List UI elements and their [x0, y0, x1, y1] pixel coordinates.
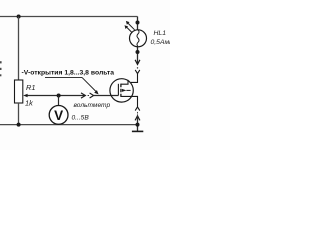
wire source lead — [121, 96, 138, 99]
wire gate run right segment — [94, 95, 119, 97]
svg-text:вольтметр: вольтметр — [74, 102, 111, 109]
transistor VT MOSFET circle — [110, 79, 133, 102]
connector X3 socket fork (opens down) — [135, 107, 140, 111]
node bottom-right junction — [136, 123, 140, 127]
svg-text:0...5В: 0...5В — [72, 115, 90, 122]
cropped text marks at left edge — [0, 61, 2, 63]
transistor gate bar — [117, 84, 119, 96]
connector X3 gap dots — [137, 112, 138, 113]
connector X2 gap dot — [137, 67, 138, 68]
wire source to bottom rail — [137, 116, 139, 131]
node lamp top terminal dot — [136, 21, 140, 25]
connector X2 socket fork (opens up) — [135, 70, 140, 74]
svg-text:1k: 1k — [25, 98, 33, 107]
wire drain lead inner — [121, 80, 128, 84]
svg-text:-V-открытия 1,8...3,8 вольта: -V-открытия 1,8...3,8 вольта — [22, 70, 115, 77]
lamp emission arrow 2 — [127, 27, 132, 32]
voltmeter circle — [49, 106, 68, 125]
wire gate run left segment — [27, 95, 85, 97]
node lamp bottom terminal dot — [136, 50, 140, 54]
connector X2 plug arrow (down) — [135, 60, 140, 65]
leader arrowhead — [94, 90, 98, 94]
lamp HL1 circle — [130, 30, 147, 47]
svg-text:0,5Амп: 0,5Амп — [151, 39, 171, 46]
connector X3 plug arrow (up) — [135, 116, 140, 121]
wire left branch vertical — [18, 17, 20, 81]
ground chassis bar — [132, 130, 143, 132]
leader underline — [45, 76, 82, 78]
connector X1 gap dash — [88, 95, 89, 97]
wire lamp top lead — [137, 17, 139, 30]
transistor channel dashed bar — [120, 84, 122, 97]
node top-left junction — [17, 15, 21, 19]
leader diagonal line — [82, 77, 97, 92]
wire resistor bottom to bottom rail — [18, 103, 20, 125]
wire lamp bottom lead — [137, 47, 139, 64]
wiper arrow into resistor R1 — [23, 94, 27, 97]
connector X1 socket fork — [90, 93, 94, 98]
lamp emission arrow 1 — [128, 23, 134, 29]
resistor R1 — [15, 80, 23, 103]
svg-text:HL1: HL1 — [154, 30, 167, 37]
wire drain lead outer — [131, 73, 138, 82]
svg-text:V: V — [54, 108, 63, 123]
node voltmeter junction — [57, 94, 61, 98]
transistor substrate arrow (p-channel, points away) — [122, 89, 127, 92]
svg-text:R1: R1 — [26, 83, 35, 92]
wire bottom rail — [0, 124, 138, 126]
wire voltmeter stub — [58, 96, 60, 106]
connector X1 plug arrow on gate wire — [81, 93, 85, 98]
wire top rail — [0, 16, 138, 18]
node bottom-left junction — [17, 123, 21, 127]
lamp HL1 filament squiggle — [137, 30, 139, 47]
